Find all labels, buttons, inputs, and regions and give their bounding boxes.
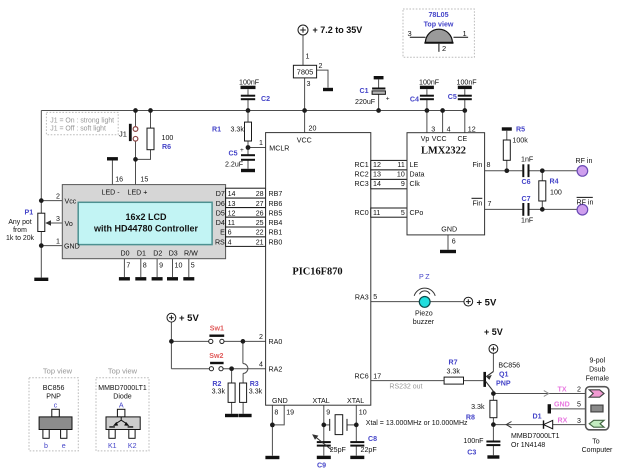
svg-text:Dsub: Dsub xyxy=(589,367,605,374)
svg-text:C6: C6 xyxy=(522,178,531,186)
svg-text:GND: GND xyxy=(441,226,457,234)
svg-text:C1: C1 xyxy=(360,87,369,95)
svg-text:Fin: Fin xyxy=(472,200,482,208)
svg-text:RX: RX xyxy=(558,416,568,424)
svg-text:RB7: RB7 xyxy=(269,190,283,198)
svg-text:C5: C5 xyxy=(448,93,457,101)
svg-text:RB1: RB1 xyxy=(269,229,283,237)
svg-text:8: 8 xyxy=(143,262,147,270)
svg-text:D6: D6 xyxy=(216,200,225,208)
svg-text:RC6: RC6 xyxy=(354,373,368,381)
svg-text:7: 7 xyxy=(488,200,492,208)
svg-text:100: 100 xyxy=(550,188,562,196)
svg-text:100nF: 100nF xyxy=(457,79,478,87)
svg-text:6: 6 xyxy=(452,238,456,246)
svg-text:RS232 out: RS232 out xyxy=(389,383,422,390)
svg-text:Vcc: Vcc xyxy=(65,198,77,206)
svg-text:1nF: 1nF xyxy=(521,217,534,225)
svg-text:RF in: RF in xyxy=(576,157,593,165)
svg-text:Q1: Q1 xyxy=(499,371,509,379)
svg-text:+ 5V: + 5V xyxy=(477,297,497,308)
svg-text:2: 2 xyxy=(577,386,581,394)
svg-text:LE: LE xyxy=(410,161,419,169)
svg-text:R/W: R/W xyxy=(184,249,198,257)
svg-text:12: 12 xyxy=(373,161,381,169)
svg-text:21: 21 xyxy=(256,238,264,246)
svg-text:100nF: 100nF xyxy=(419,79,440,87)
svg-text:100k: 100k xyxy=(512,137,528,145)
svg-text:9: 9 xyxy=(159,262,163,270)
svg-text:Top view: Top view xyxy=(43,367,73,376)
svg-text:To: To xyxy=(592,438,600,445)
svg-text:Data: Data xyxy=(410,171,425,179)
svg-text:C3: C3 xyxy=(467,449,476,457)
svg-text:PNP: PNP xyxy=(46,393,61,401)
svg-text:D1: D1 xyxy=(533,413,542,421)
svg-text:D2: D2 xyxy=(153,249,162,257)
svg-text:MMBD7000LT1: MMBD7000LT1 xyxy=(511,433,560,440)
svg-text:Vo: Vo xyxy=(65,220,73,228)
svg-text:+: + xyxy=(240,147,244,154)
svg-text:9: 9 xyxy=(401,180,405,188)
svg-text:R1: R1 xyxy=(212,126,221,134)
svg-text:15: 15 xyxy=(140,176,148,184)
svg-text:RC2: RC2 xyxy=(354,171,368,179)
svg-text:1: 1 xyxy=(259,139,263,147)
svg-text:100: 100 xyxy=(162,134,174,142)
svg-text:RB5: RB5 xyxy=(269,209,283,217)
svg-text:3: 3 xyxy=(56,215,60,223)
svg-text:25pF: 25pF xyxy=(330,446,347,454)
svg-text:+ 5V: + 5V xyxy=(179,313,199,324)
svg-text:P1: P1 xyxy=(25,209,34,217)
svg-text:2: 2 xyxy=(442,44,446,53)
svg-text:Clk: Clk xyxy=(410,180,421,188)
svg-text:Top view: Top view xyxy=(424,21,454,29)
svg-text:3: 3 xyxy=(408,29,412,38)
svg-text:XTAL: XTAL xyxy=(347,397,364,405)
svg-text:LED +: LED + xyxy=(128,189,148,197)
svg-text:Vp: Vp xyxy=(421,136,430,143)
svg-text:Female: Female xyxy=(586,376,609,383)
svg-text:3: 3 xyxy=(577,417,581,425)
svg-text:RC0: RC0 xyxy=(354,209,368,217)
svg-text:J1: J1 xyxy=(119,130,127,139)
svg-text:RB0: RB0 xyxy=(269,238,283,246)
svg-text:XTAL: XTAL xyxy=(313,397,330,405)
svg-text:5: 5 xyxy=(191,262,195,270)
svg-text:RA0: RA0 xyxy=(269,338,283,346)
svg-text:RA3: RA3 xyxy=(355,293,369,301)
svg-text:D1: D1 xyxy=(137,249,146,257)
svg-text:22pF: 22pF xyxy=(361,446,378,454)
svg-text:R6: R6 xyxy=(162,143,171,151)
svg-text:3.3k: 3.3k xyxy=(212,388,226,396)
svg-text:22: 22 xyxy=(256,229,264,237)
svg-text:+ 5V: + 5V xyxy=(484,327,503,337)
svg-text:J1 = On : strong light: J1 = On : strong light xyxy=(50,117,114,124)
svg-text:CE: CE xyxy=(458,136,468,143)
svg-text:K2: K2 xyxy=(128,442,137,450)
svg-text:LMX2322: LMX2322 xyxy=(421,145,466,156)
svg-text:16x2 LCD: 16x2 LCD xyxy=(125,212,167,222)
svg-text:12: 12 xyxy=(468,126,476,134)
svg-text:27: 27 xyxy=(256,200,264,208)
svg-text:PIC16F870: PIC16F870 xyxy=(292,267,342,278)
svg-text:C8: C8 xyxy=(368,435,377,443)
svg-text:GND: GND xyxy=(554,401,570,409)
svg-text:Sw1: Sw1 xyxy=(210,324,224,332)
svg-text:GND: GND xyxy=(64,243,80,251)
svg-text:from: from xyxy=(13,227,27,234)
svg-text:b: b xyxy=(44,442,48,450)
svg-text:TX: TX xyxy=(558,386,567,394)
svg-text:J1 = Off : soft light: J1 = Off : soft light xyxy=(50,126,106,133)
svg-text:2: 2 xyxy=(319,62,323,70)
svg-text:R8: R8 xyxy=(466,413,475,421)
svg-text:RS: RS xyxy=(215,238,225,246)
svg-text:14: 14 xyxy=(373,180,381,188)
svg-text:5: 5 xyxy=(577,401,581,409)
svg-text:with HD44780 Controller: with HD44780 Controller xyxy=(93,224,199,234)
svg-text:RB6: RB6 xyxy=(269,200,283,208)
svg-text:A: A xyxy=(119,402,124,410)
svg-text:PZ: PZ xyxy=(419,273,431,281)
svg-text:5: 5 xyxy=(373,293,377,301)
svg-text:11: 11 xyxy=(228,219,235,227)
svg-text:14: 14 xyxy=(228,190,236,198)
svg-text:buzzer: buzzer xyxy=(413,318,435,326)
svg-text:4: 4 xyxy=(259,360,263,368)
svg-text:R5: R5 xyxy=(516,126,525,134)
svg-text:Diode: Diode xyxy=(113,393,132,401)
svg-text:Fin: Fin xyxy=(472,161,482,169)
svg-text:3.3k: 3.3k xyxy=(231,126,245,134)
svg-text:C2: C2 xyxy=(261,95,270,103)
svg-text:VCC: VCC xyxy=(297,137,312,145)
svg-text:26: 26 xyxy=(256,209,264,217)
svg-text:3: 3 xyxy=(431,126,435,134)
svg-text:13: 13 xyxy=(228,200,236,208)
svg-text:R7: R7 xyxy=(449,359,458,367)
svg-text:10: 10 xyxy=(397,171,405,179)
svg-text:Xtal = 13.000MHz or 10.000MHz: Xtal = 13.000MHz or 10.000MHz xyxy=(366,420,468,427)
svg-text:28: 28 xyxy=(256,190,264,198)
svg-text:MCLR: MCLR xyxy=(269,145,289,153)
svg-text:RC1: RC1 xyxy=(354,161,368,169)
svg-text:11: 11 xyxy=(397,161,404,169)
svg-text:RC3: RC3 xyxy=(354,180,368,188)
svg-text:+: + xyxy=(386,95,390,102)
svg-text:20: 20 xyxy=(309,125,317,133)
svg-text:PNP: PNP xyxy=(496,380,511,388)
svg-text:Any pot: Any pot xyxy=(8,219,31,226)
svg-text:2: 2 xyxy=(259,333,263,341)
svg-text:4: 4 xyxy=(447,126,451,134)
svg-text:7: 7 xyxy=(126,262,130,270)
svg-text:CPo: CPo xyxy=(410,209,424,217)
svg-text:BC856: BC856 xyxy=(498,362,520,370)
svg-text:19: 19 xyxy=(286,409,294,417)
svg-text:C5: C5 xyxy=(229,150,238,158)
svg-text:10: 10 xyxy=(175,262,183,270)
svg-text:GND: GND xyxy=(272,397,288,405)
svg-text:10: 10 xyxy=(359,409,367,417)
svg-text:K1: K1 xyxy=(108,442,117,450)
svg-text:9: 9 xyxy=(326,409,330,417)
svg-text:1k to 20k: 1k to 20k xyxy=(6,235,35,242)
svg-text:2.2uF: 2.2uF xyxy=(225,161,244,169)
svg-text:16: 16 xyxy=(115,176,123,184)
svg-text:17: 17 xyxy=(373,372,381,380)
svg-text:100nF: 100nF xyxy=(239,79,260,87)
svg-text:Or 1N4148: Or 1N4148 xyxy=(511,442,545,449)
svg-text:9-pol: 9-pol xyxy=(590,358,606,365)
svg-text:7805: 7805 xyxy=(297,68,314,77)
svg-text:6: 6 xyxy=(228,229,232,237)
svg-text:3: 3 xyxy=(307,80,311,88)
svg-text:3.3k: 3.3k xyxy=(471,403,485,411)
svg-text:RA2: RA2 xyxy=(269,366,283,374)
svg-text:E: E xyxy=(220,229,225,237)
svg-text:25: 25 xyxy=(256,219,264,227)
svg-text:3.3k: 3.3k xyxy=(249,388,263,396)
svg-text:C4: C4 xyxy=(410,96,419,104)
svg-text:220uF: 220uF xyxy=(355,98,376,106)
svg-text:D7: D7 xyxy=(216,190,225,198)
svg-text:D0: D0 xyxy=(121,249,130,257)
svg-text:1: 1 xyxy=(56,238,60,246)
svg-text:BC856: BC856 xyxy=(43,384,65,392)
svg-text:RB4: RB4 xyxy=(269,219,283,227)
svg-text:MMBD7000LT1: MMBD7000LT1 xyxy=(98,385,147,392)
svg-text:1: 1 xyxy=(306,53,310,61)
svg-text:5: 5 xyxy=(401,209,405,217)
svg-text:D5: D5 xyxy=(216,209,225,217)
svg-text:4: 4 xyxy=(228,238,232,246)
svg-text:C7: C7 xyxy=(522,195,531,203)
svg-text:Piezo: Piezo xyxy=(415,310,433,318)
svg-text:RF in: RF in xyxy=(577,198,594,206)
svg-text:D4: D4 xyxy=(216,219,225,227)
svg-text:100nF: 100nF xyxy=(463,437,484,445)
svg-text:13: 13 xyxy=(373,171,381,179)
svg-text:C9: C9 xyxy=(317,462,326,470)
svg-text:2: 2 xyxy=(56,193,60,201)
svg-text:LED -: LED - xyxy=(102,189,121,197)
svg-text:78L05: 78L05 xyxy=(428,11,448,19)
svg-text:1: 1 xyxy=(463,29,467,38)
svg-text:Top view: Top view xyxy=(108,367,138,376)
svg-text:8: 8 xyxy=(274,409,278,417)
svg-text:R4: R4 xyxy=(550,178,559,186)
svg-text:D3: D3 xyxy=(169,249,178,257)
svg-text:+ 7.2 to 35V: + 7.2 to 35V xyxy=(313,25,363,35)
svg-text:3.3k: 3.3k xyxy=(447,368,461,376)
svg-text:11: 11 xyxy=(373,209,380,217)
svg-text:VCC: VCC xyxy=(432,136,447,143)
svg-text:Sw2: Sw2 xyxy=(209,352,223,360)
svg-text:e: e xyxy=(62,442,66,450)
svg-text:12: 12 xyxy=(228,209,236,217)
svg-text:c: c xyxy=(54,402,58,410)
svg-text:1nF: 1nF xyxy=(521,156,534,164)
svg-text:8: 8 xyxy=(487,161,491,169)
svg-text:Computer: Computer xyxy=(582,447,613,454)
